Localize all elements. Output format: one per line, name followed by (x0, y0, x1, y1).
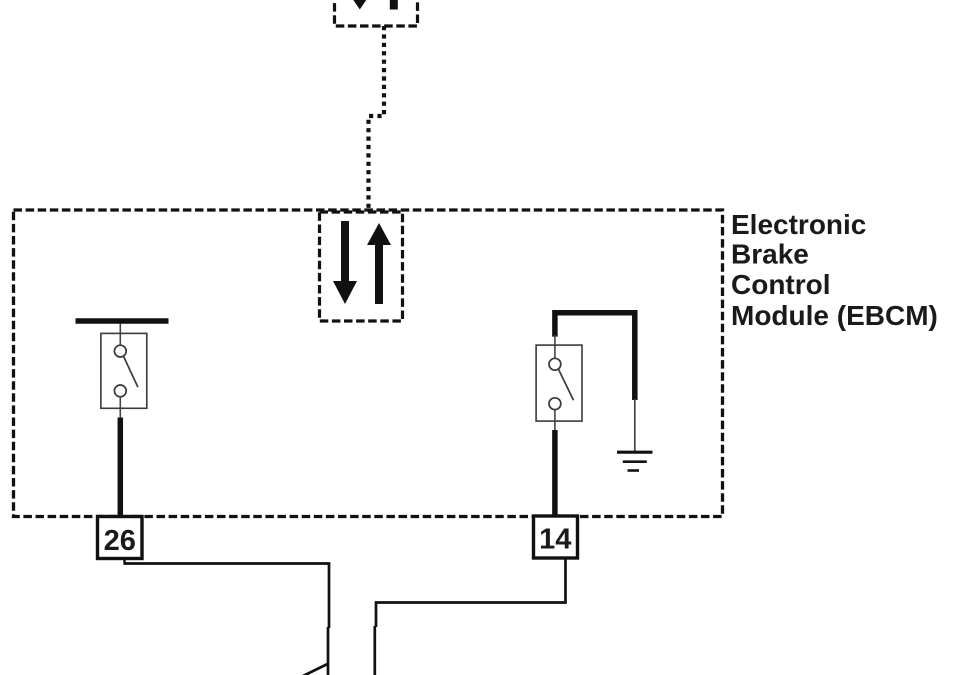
splice branch wire (diagonal, bottom left) (303, 664, 328, 675)
up arrow in serial data symbol (367, 223, 391, 304)
wire below right switch (thin) (554, 410, 556, 431)
wire from pin 26 (stub) (123, 559, 125, 564)
down arrow in serial data symbol (333, 221, 357, 304)
pin box 26 (98, 517, 143, 559)
serial data symbol box (inside EBCM) (320, 212, 403, 321)
pin box 14 (534, 516, 578, 558)
wire from bend to ground (thin) (634, 399, 636, 451)
wire into right switch (thin) (554, 335, 556, 359)
right switch bottom contact (549, 398, 561, 410)
EBCM module dashed box (14, 210, 723, 517)
right switch blade (559, 369, 574, 400)
wire below left switch (thick) to pin 26 (118, 418, 124, 518)
left switch body (101, 333, 147, 408)
up arrow in top connector box (382, 0, 406, 10)
wire from pin 26: lower vertical after in-line connector (327, 627, 330, 675)
wire from bar into left switch (119, 324, 121, 346)
left switch blade (124, 356, 138, 387)
wire below left switch (thin) (119, 397, 121, 418)
svg-text:26: 26 (104, 525, 136, 557)
down arrow in top connector box (344, 0, 376, 10)
svg-text:Electronic: Electronic (731, 209, 866, 240)
dotted serial data wire (369, 26, 385, 209)
svg-text:14: 14 (539, 524, 571, 556)
data link connector box (top, cut off) (335, 0, 418, 26)
left switch supply bar (76, 318, 169, 324)
label: Electronic Brake Control Module (EBCM) (731, 209, 938, 331)
svg-text:Control: Control (731, 269, 831, 300)
right switch body (536, 345, 582, 421)
right switch feed wire (thick bent) (555, 313, 635, 400)
svg-text:Brake: Brake (731, 239, 809, 270)
wire from pin 26: horizontal run (124, 564, 330, 629)
left switch top contact (114, 345, 126, 357)
wire from pin 14: down and left run (376, 558, 566, 627)
right switch top contact (549, 358, 561, 370)
left switch bottom contact (114, 385, 126, 397)
wire below right switch (thick) to pin 14 (552, 430, 558, 517)
wire from pin 14: lower vertical after in-line connector (373, 626, 376, 675)
svg-text:Module (EBCM): Module (EBCM) (731, 300, 938, 331)
ground symbol (617, 452, 653, 470)
